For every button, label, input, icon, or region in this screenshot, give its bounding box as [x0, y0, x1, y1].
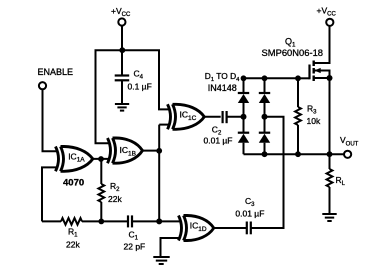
svg-text:+VCC: +VCC: [111, 6, 131, 18]
XOR gate IC1C: [168, 104, 205, 129]
node source: [327, 75, 333, 81]
node top rail middle: [262, 75, 268, 81]
svg-text:D1 TO D4: D1 TO D4: [205, 71, 240, 83]
diode D2 (left top): [238, 78, 249, 117]
wire IC1D output to C3: [214, 227, 246, 229]
capacitor C2: [204, 111, 233, 145]
body lead with arrow: [314, 71, 330, 79]
node Vcc rail junction: [119, 47, 125, 53]
svg-text:22k: 22k: [66, 240, 80, 250]
node IC1D input junction: [156, 218, 162, 224]
wire to IC1C bottom input: [159, 124, 169, 126]
power terminal +Vcc (left): [111, 6, 131, 26]
wire source down to output rail: [329, 78, 331, 154]
wire Vcc rail to IC1C top input: [122, 50, 169, 109]
Vout terminal: [340, 135, 359, 158]
wire source/output rail to Vout: [244, 153, 344, 155]
XOR gate IC1D: [179, 216, 214, 241]
diode D3 (right bottom): [259, 117, 270, 154]
wire C1 to IC1D top input: [132, 220, 181, 222]
MOSFET Q1: [262, 26, 333, 81]
wire C2 to left diode midpoint: [227, 116, 244, 118]
diode D4 (right top): [259, 78, 270, 117]
wire Vcc terminal to rail: [121, 26, 123, 51]
svg-text:R1: R1: [68, 226, 78, 238]
node left diode midpoint: [241, 114, 247, 120]
node R2 bottom junction: [98, 219, 104, 225]
svg-text:4070: 4070: [63, 178, 84, 189]
wire C3 up to right diode midpoint: [251, 117, 284, 228]
svg-text:C4: C4: [134, 69, 144, 81]
svg-text:RL: RL: [336, 175, 346, 187]
svg-text:22 pF: 22 pF: [124, 241, 146, 251]
resistor R2: [98, 159, 122, 221]
svg-text:C3: C3: [245, 196, 255, 208]
svg-text:IC1B: IC1B: [120, 145, 136, 157]
ground (RL): [322, 214, 336, 221]
node bottom rail at R3: [295, 151, 301, 157]
source lead: [314, 77, 330, 79]
svg-text:22k: 22k: [108, 194, 122, 204]
wire Vcc rail to IC1B top input: [96, 50, 123, 143]
ground (IC1D input): [153, 257, 169, 264]
svg-text:IC1D: IC1D: [190, 220, 207, 232]
svg-text:C1: C1: [129, 229, 139, 241]
node top rail right: [295, 75, 301, 81]
wire timing rail to R1: [42, 220, 61, 222]
node bottom rail at right diodes: [262, 151, 268, 157]
svg-text:0.01 µF: 0.01 µF: [235, 208, 264, 218]
svg-text:R3: R3: [307, 104, 317, 116]
svg-text:IC1C: IC1C: [180, 110, 197, 122]
diode D1 (left bottom): [238, 117, 249, 154]
capacitor C1: [124, 215, 146, 251]
wire timing rail left leg to IC1A bottom input: [42, 167, 57, 221]
node IC1B output junction: [156, 148, 162, 154]
label D1 TO D4 / IN4148: [205, 71, 240, 93]
wire IC1B output: [143, 150, 160, 152]
resistor R3: [295, 78, 321, 154]
wire IC1A output to IC1B input: [93, 158, 111, 160]
ground (C4): [115, 104, 129, 111]
gate lead: [298, 77, 310, 79]
power terminal +Vcc (right): [317, 6, 337, 26]
wire IC1D bottom input to ground: [161, 238, 181, 257]
wire IC1B output down to timing rail: [158, 125, 160, 222]
node right diode midpoint: [262, 114, 268, 120]
svg-text:IN4148: IN4148: [208, 83, 237, 93]
capacitor C4: [115, 50, 152, 103]
node top rail left: [241, 75, 247, 81]
svg-text:0.1 µF: 0.1 µF: [128, 82, 152, 92]
wire ENABLE to IC1A top input: [43, 89, 58, 151]
ENABLE terminal: [38, 67, 74, 89]
svg-text:0.01 µF: 0.01 µF: [204, 135, 233, 145]
wire gate rail (diode top rail): [244, 77, 299, 79]
wire IC1C output to C2: [204, 116, 220, 118]
resistor R1: [61, 218, 82, 249]
svg-text:VOUT: VOUT: [340, 135, 359, 147]
svg-text:R2: R2: [110, 181, 120, 193]
svg-text:+VCC: +VCC: [317, 6, 337, 18]
node IC1A output junction: [98, 156, 104, 162]
XOR gate IC1A: [56, 147, 93, 172]
svg-text:SMP60N06-18: SMP60N06-18: [262, 47, 324, 58]
capacitor C3: [235, 196, 264, 234]
channel bar segments: [313, 61, 315, 67]
wire rail R1 to C1: [82, 220, 128, 222]
resistor RL: [327, 154, 346, 213]
svg-text:10k: 10k: [307, 116, 321, 126]
svg-text:ENABLE: ENABLE: [38, 67, 74, 77]
drain lead: [314, 26, 330, 63]
gate bar: [308, 65, 310, 80]
node bottom rail at source: [327, 151, 333, 157]
svg-text:IC1A: IC1A: [68, 151, 85, 163]
XOR gate IC1B: [108, 138, 143, 163]
